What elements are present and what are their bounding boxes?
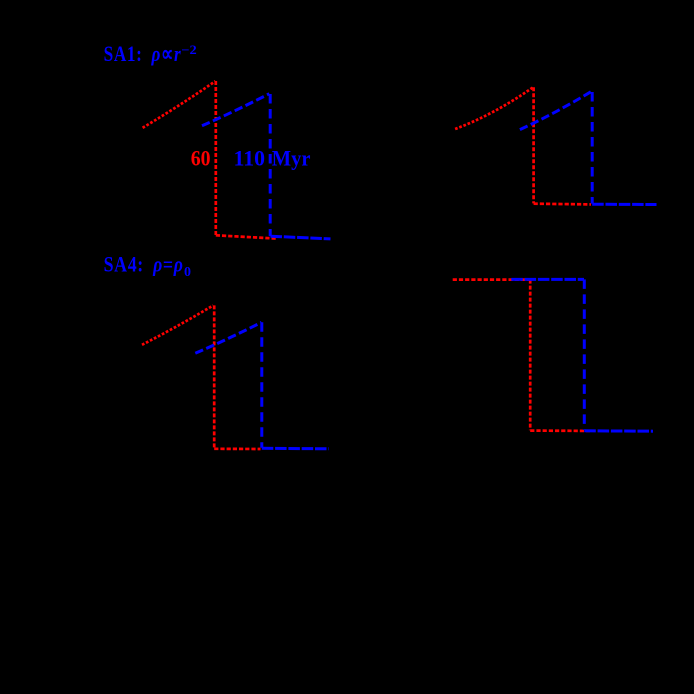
svg-text:Myr: Myr xyxy=(272,146,311,171)
svg-text:110: 110 xyxy=(234,146,266,171)
svg-text:SA1: ρ∝r: SA1: ρ∝r xyxy=(104,41,182,66)
svg-text:60: 60 xyxy=(191,146,211,171)
svg-text:0: 0 xyxy=(184,265,191,280)
svg-text:SA4: ρ=ρ: SA4: ρ=ρ xyxy=(104,251,184,276)
svg-text:−2: −2 xyxy=(181,43,197,57)
